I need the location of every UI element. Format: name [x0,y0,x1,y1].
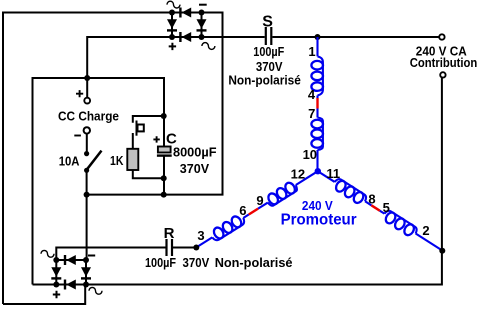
node switch upper contact [84,151,89,156]
capacitor R right plate [171,239,173,256]
diode D2 rectifier1 bottom [182,32,192,42]
node switch lower contact [84,168,89,173]
diode D4 rectifier1 right [197,19,207,29]
label ~ rectifier2 AC bottom-right [89,287,102,294]
capacitor R left plate [165,239,167,256]
node rectifier2 bottom-right [83,282,89,288]
node DC- rail at switch [84,192,90,198]
svg-text:5: 5 [383,200,390,215]
wire bottom border to bottom rectifier AC node [3,285,85,305]
node capacitor C bottom [161,175,167,181]
svg-text:100µF: 100µF [253,44,284,59]
rectifier 2 top side wire [56,259,86,261]
wire switch to bottom rectifier - node [86,170,88,260]
rectifier 1 left side wire [171,13,173,38]
node DC- rail below capacitor C [161,192,167,198]
svg-text:1: 1 [308,44,315,59]
label ~ rectifier1 AC bottom-right [202,43,215,50]
wire CC charge + terminal stub [86,78,88,98]
svg-text:6: 6 [239,203,246,218]
svg-text:12: 12 [291,166,305,181]
rectifier 1 right side wire [201,13,203,38]
wire long bottom 240V return line up to contribution terminal [33,78,442,285]
motor winding 1-4-7-10 red tap segment [316,98,318,109]
wire from capacitor S to motor tap 1 and 240V CA terminal [272,36,439,38]
switch 10A blade [87,151,102,170]
wire left inner loop down to bottom rectifier + node and top rail to capacitor C [33,78,165,285]
label - rectifier1 minus output [199,4,207,6]
diode D7 rectifier2 left [51,267,61,277]
svg-text:Contribution: Contribution [410,55,478,70]
pushbutton actuator bar [136,121,138,136]
node motor star point [315,168,321,174]
node motor tap 3 junction [193,245,199,251]
wire capacitor R to motor tap 3 node [173,247,196,249]
label + rectifier1 plus output [169,43,176,50]
svg-text:11: 11 [326,166,340,181]
label + CC charge [76,90,83,97]
svg-text:8000µF: 8000µF [173,144,217,159]
svg-text:370V: 370V [183,255,210,270]
diode D6 rectifier2 bottom [66,280,76,290]
wire CC charge - terminal to switch contact [86,134,88,154]
svg-text:2: 2 [422,223,429,238]
svg-text:4: 4 [308,87,316,102]
node bleeder tap [161,113,167,119]
svg-text:CC Charge: CC Charge [58,109,119,124]
diode D3 rectifier1 left [167,19,177,29]
capacitor C positive plate [158,147,171,153]
capacitor C negative plate [157,154,172,156]
wire bleeder branch from node to pushbutton [133,116,164,123]
svg-text:370V: 370V [180,161,210,176]
capacitor S right plate [270,27,272,45]
terminal contribution return [440,72,445,77]
label - rectifier2 minus output [88,255,95,257]
node rectifier2 bottom-left [53,282,59,288]
svg-text:7: 7 [308,106,315,121]
node motor tap 1 junction [315,34,321,40]
wire top border from left border to rectifier 1 and down right side to DC rail [3,13,223,305]
node rectifier2 top-right [83,257,89,263]
label ~ rectifier2 AC top-left [41,250,54,257]
svg-text:1K: 1K [110,153,124,168]
node motor tap 2 junction [439,248,445,254]
svg-text:10: 10 [303,147,317,162]
svg-text:9: 9 [256,193,263,208]
pushbutton contact square [138,125,144,132]
label + rectifier2 plus output [53,291,60,298]
label ~ rectifier1 AC top-left [167,1,180,8]
node rectifier1 top-left [169,10,175,16]
diode D8 rectifier2 right [81,267,91,277]
capacitor S left plate [265,27,267,45]
motor winding 11-8-5-2 red tap segment [371,205,379,210]
node rectifier1 bottom-left [169,34,175,40]
motor winding 12-9-6-3 coil [193,166,321,252]
wire resistor 1K bottom lead to node [133,170,164,178]
wire capacitor C bottom lead to negative rail [163,157,165,195]
wire pushbutton to resistor 1K [132,133,134,149]
node rectifier1 top-right [199,10,205,16]
svg-text:100µF: 100µF [145,255,176,270]
terminal CC charge - [84,127,90,133]
wire rectifier1 + output to CC charge rail, left segment of 240V line [87,37,265,78]
node rectifier2 top-left [53,257,59,263]
label - CC charge [74,135,81,137]
node CC charge tap on DC+ rail [84,75,90,81]
svg-text:Promoteur: Promoteur [281,211,357,228]
node rectifier1 bottom-right [199,34,205,40]
resistor 1K body [127,149,138,170]
diode D5 rectifier2 top [66,255,76,265]
rectifier 2 right side wire [85,260,87,285]
svg-text:Non-polarisé: Non-polarisé [215,255,293,270]
motor winding 12-9-6-3 red tap segment [249,209,258,215]
label + capacitor C [153,136,159,142]
svg-text:3: 3 [197,228,204,243]
motor winding 1-4-7-10 coil [311,37,323,171]
terminal CC charge + [84,98,90,104]
wire bottom rectifier AC input from capacitor R line [56,248,165,261]
diode D1 rectifier1 top [182,8,192,18]
motor winding 11-8-5-2 coil [315,167,446,256]
rectifier 2 left side wire [55,260,57,285]
svg-text:8: 8 [368,192,375,207]
svg-text:10A: 10A [59,154,80,169]
terminal 240V CA line [439,34,444,39]
svg-text:Non-polarisé: Non-polarisé [228,73,301,88]
